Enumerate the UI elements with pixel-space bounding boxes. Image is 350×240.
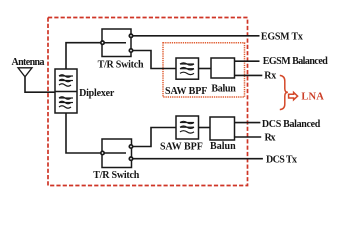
svg-text:T/R Switch: T/R Switch bbox=[93, 170, 139, 181]
svg-text:Diplexer: Diplexer bbox=[79, 88, 115, 99]
svg-text:Rx: Rx bbox=[265, 132, 276, 143]
svg-text:Rx: Rx bbox=[264, 70, 276, 81]
svg-text:LNA: LNA bbox=[301, 91, 324, 102]
svg-text:EGSM Balanced: EGSM Balanced bbox=[263, 56, 328, 67]
svg-text:EGSM Tx: EGSM Tx bbox=[261, 32, 303, 43]
svg-text:DCS Balanced: DCS Balanced bbox=[262, 119, 321, 130]
svg-text:T/R Switch: T/R Switch bbox=[98, 60, 144, 71]
svg-text:Balun: Balun bbox=[211, 84, 236, 95]
svg-text:Balun: Balun bbox=[210, 141, 236, 152]
svg-text:Antenna: Antenna bbox=[12, 57, 45, 68]
svg-text:SAW BPF: SAW BPF bbox=[165, 86, 207, 97]
svg-text:DCS Tx: DCS Tx bbox=[266, 155, 297, 166]
svg-text:SAW BPF: SAW BPF bbox=[160, 141, 203, 152]
